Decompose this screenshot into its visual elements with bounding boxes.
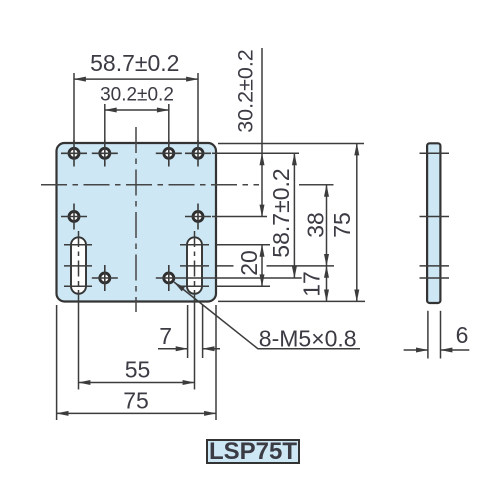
- hole middle row left M5: [61, 204, 87, 230]
- svg-text:75: 75: [329, 212, 355, 238]
- extension line plate right edge below: [215, 305, 217, 420]
- svg-text:20: 20: [236, 250, 262, 276]
- extension line right slot right edge below: [202, 305, 204, 358]
- extension line middle hole row right: [212, 216, 267, 218]
- dimension 75 right: [329, 144, 357, 302]
- slot right (7x20): [180, 231, 209, 390]
- extension line plate bottom edge right: [218, 300, 365, 302]
- dimension 55 bottom: [79, 357, 195, 383]
- hole top row outer-right M5: [185, 140, 211, 167]
- side view plate: [420, 143, 450, 303]
- dimension 75 bottom: [57, 388, 216, 414]
- leader 8-M5x0.8: [174, 282, 360, 351]
- extension line slot top arc right: [216, 244, 270, 246]
- horizontal centerline: [41, 184, 259, 186]
- hole top row outer-left M5: [61, 140, 87, 167]
- extension line plate left edge below: [56, 305, 58, 420]
- svg-text:LSP75T: LSP75T: [209, 438, 297, 465]
- svg-text:58.7±0.2: 58.7±0.2: [90, 50, 179, 76]
- slot left (7x20): [64, 231, 92, 390]
- svg-text:30.2±0.2: 30.2±0.2: [234, 49, 258, 133]
- extension line plate top edge right: [218, 143, 364, 145]
- hole top row inner-right M5: [156, 140, 182, 167]
- extension line slot center right: [217, 265, 234, 267]
- svg-text:7: 7: [159, 323, 172, 349]
- svg-text:6: 6: [456, 322, 469, 348]
- vertical centerline: [135, 127, 137, 312]
- extension line slot bottom arc right: [216, 285, 270, 287]
- horizontal centerline extension right: [299, 184, 334, 186]
- dimension 20 right (slot length): [236, 245, 262, 286]
- svg-text:17: 17: [299, 271, 325, 297]
- dimension 58.7±0.2 right: [268, 153, 294, 278]
- dimension 6 side: [404, 311, 470, 359]
- svg-text:55: 55: [125, 357, 151, 383]
- svg-text:30.2±0.2: 30.2±0.2: [100, 85, 174, 106]
- hole middle row right M5: [185, 204, 211, 230]
- dimension 30.2±0.2 right: [234, 48, 263, 217]
- dimension 38 right: [303, 185, 329, 266]
- extension line top hole row right: [212, 152, 299, 154]
- svg-text:75: 75: [123, 388, 149, 414]
- part number box LSP75T: [207, 438, 299, 465]
- dimension 17 right: [299, 266, 327, 302]
- svg-text:38: 38: [303, 212, 329, 238]
- hole top row inner-left M5: [92, 140, 118, 167]
- svg-text:58.7±0.2: 58.7±0.2: [268, 168, 294, 257]
- svg-text:8-M5×0.8: 8-M5×0.8: [259, 325, 357, 351]
- extension line right slot left edge below: [187, 305, 189, 358]
- dimension 7 bottom (slot width): [158, 323, 220, 349]
- plate front view: [57, 143, 217, 302]
- dimension 30.2±0.2 top: [100, 85, 174, 144]
- dimension 58.7±0.2 top: [74, 50, 198, 143]
- hole bottom row right M5: [156, 265, 302, 291]
- hole bottom row left M5: [92, 265, 118, 291]
